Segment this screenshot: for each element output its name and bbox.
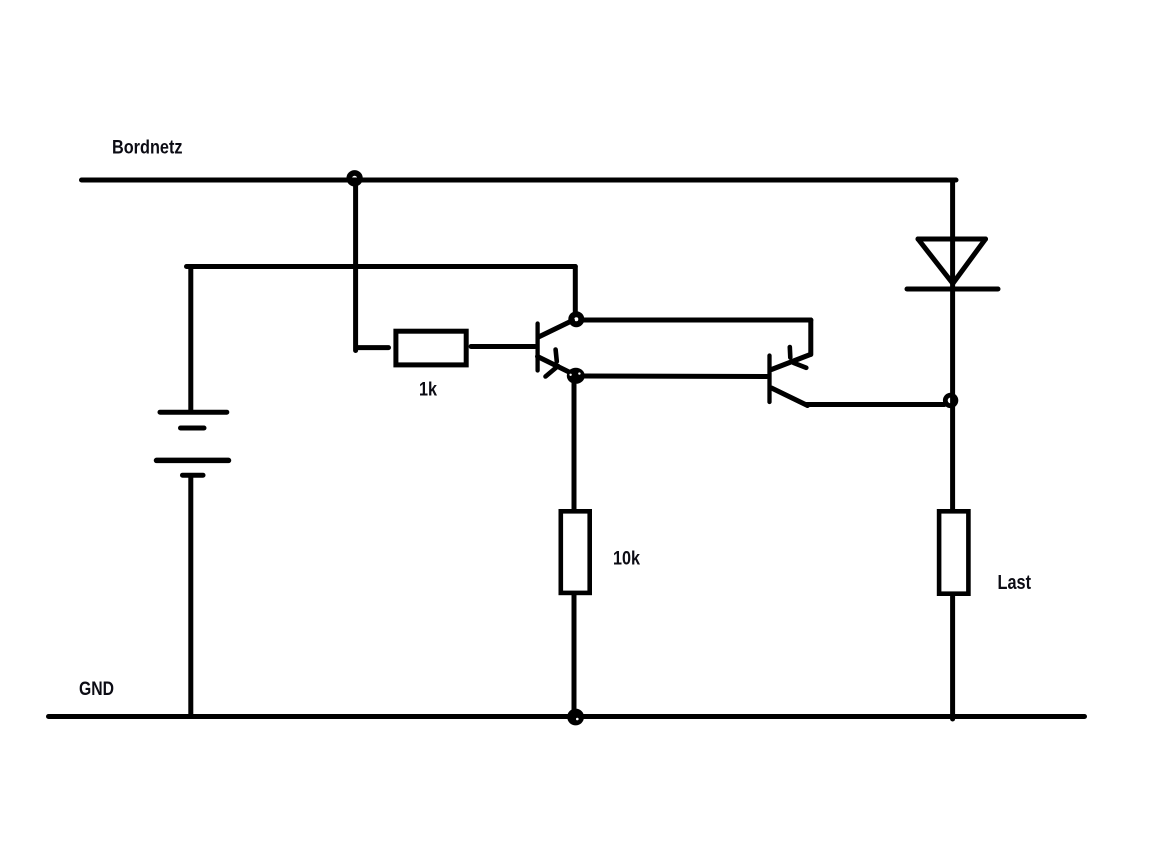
svg-text:1k: 1k [419,378,437,400]
svg-text:10k: 10k [613,547,640,569]
svg-text:Bordnetz: Bordnetz [112,137,183,159]
svg-text:Last: Last [998,572,1032,594]
svg-text:GND: GND [79,678,114,700]
